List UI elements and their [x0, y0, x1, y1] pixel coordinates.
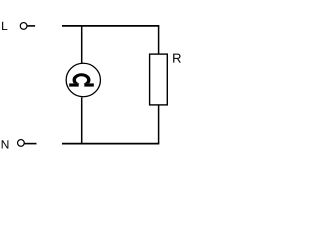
wire resistor top [158, 26, 160, 54]
ohmmeter symbol Ω arch [73, 73, 91, 86]
resistor R [150, 54, 168, 105]
wire L stub [27, 25, 35, 27]
wire ohmmeter top [81, 26, 83, 63]
node L label [2, 22, 7, 30]
wire resistor bottom [158, 105, 160, 144]
resistor R label [173, 54, 181, 63]
terminal N [18, 140, 25, 147]
node N label [2, 140, 9, 148]
wire N stub [24, 143, 36, 145]
wire bottom rail [62, 143, 159, 145]
ohmmeter M1 circle [66, 63, 100, 97]
terminal L [20, 23, 27, 30]
ohmmeter symbol Ω right foot [84, 83, 94, 86]
ohmmeter symbol Ω left foot [69, 83, 79, 86]
wire ohmmeter bottom [81, 97, 83, 143]
wire top rail [62, 25, 159, 27]
